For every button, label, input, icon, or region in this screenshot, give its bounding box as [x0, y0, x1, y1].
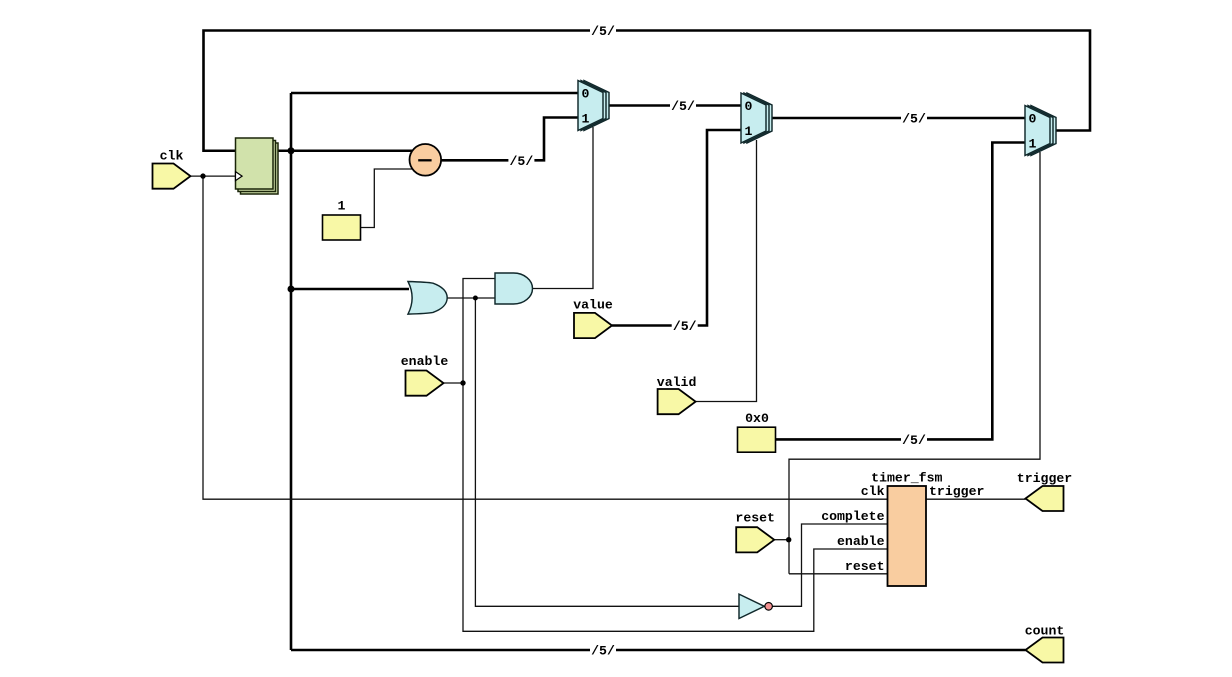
timer_fsm subcircuit box	[888, 486, 927, 586]
svg-text:trigger: trigger	[1017, 471, 1072, 486]
svg-text:1: 1	[582, 111, 590, 126]
svg-text:valid: valid	[657, 375, 697, 390]
wire: value port bus to mux2 input 1	[612, 130, 741, 326]
wire: mux1 output bus to mux2 input 0	[605, 104, 741, 107]
svg-text:/5/: /5/	[902, 112, 926, 127]
svg-text:count: count	[1025, 624, 1065, 639]
subtractor circle	[410, 144, 442, 176]
junction: Q bus node	[288, 147, 295, 154]
wire: enable net up to AND input 1	[463, 279, 495, 384]
svg-text:/5/: /5/	[510, 154, 534, 169]
wire: Q bus vertical trunk at x=291	[290, 93, 293, 650]
constant 1 box	[323, 215, 361, 240]
svg-text:1: 1	[338, 199, 346, 214]
bus width marker /5/ mux1 to mux2	[670, 99, 696, 114]
wire: reset net branch to timer_fsm reset pin	[789, 573, 888, 575]
wire: dff Q output bus row to subtractor	[273, 149, 414, 152]
mux U3 (stacked)	[1025, 106, 1056, 156]
bus width marker /5/ subtractor output	[508, 154, 534, 169]
wire: count output bus	[291, 649, 1026, 652]
svg-text:/5/: /5/	[673, 319, 697, 334]
NOT gate	[739, 594, 772, 618]
junction: OR output node	[473, 296, 478, 301]
svg-text:reset: reset	[735, 511, 775, 526]
svg-text:complete: complete	[821, 509, 884, 524]
wire: mux2 output bus to mux3 input 0	[768, 117, 1025, 120]
wire: AND output up to mux1 select	[532, 127, 593, 289]
mux U2 (stacked)	[741, 93, 772, 143]
wire: NOT output to timer_fsm complete pin	[773, 524, 888, 606]
wire: reduce-OR output to AND input 2	[448, 297, 496, 299]
reduce-OR gate	[408, 282, 447, 315]
wire: 0x0 constant bus to mux3 input 1	[776, 143, 1026, 440]
bus width marker /5/ mux2 to mux3	[901, 112, 927, 127]
svg-text:enable: enable	[401, 354, 449, 369]
wire: Q bus branch to mux1 input 0	[291, 92, 578, 95]
svg-text:clk: clk	[160, 149, 184, 164]
input port valid	[658, 389, 696, 414]
junction: enable node	[460, 380, 465, 385]
input port reset	[736, 527, 774, 552]
svg-text:0: 0	[582, 87, 590, 102]
wire: valid port to mux2 select	[696, 140, 757, 402]
svg-text:trigger: trigger	[929, 484, 984, 499]
mux U1 (stacked)	[578, 81, 609, 131]
svg-text:reset: reset	[845, 559, 885, 574]
wire: Q bus branch to reduce-OR input	[291, 288, 409, 291]
junction: clk node	[200, 173, 205, 178]
output port count	[1026, 638, 1064, 663]
bus width marker /5/ value wire	[672, 319, 698, 334]
wire: clk stub from port to dff clock pin	[191, 175, 237, 177]
svg-text:1: 1	[1029, 136, 1037, 151]
AND gate	[495, 273, 533, 304]
wire: clk net down to timer_fsm clk pin	[203, 176, 888, 499]
wire: enable stub from port	[444, 382, 464, 384]
wire: enable net down to timer_fsm enable pin	[463, 383, 888, 631]
svg-text:1: 1	[745, 124, 753, 139]
svg-text:/5/: /5/	[671, 99, 695, 114]
wire: reset net stub from port to trunk	[774, 539, 789, 541]
wire: feedback bus from mux3 output around top to dff D input	[204, 31, 1091, 151]
wire: reset net trunk to mux3 select	[789, 152, 1040, 574]
input port enable	[406, 371, 444, 396]
svg-text:0: 0	[1029, 112, 1037, 127]
wire: timer_fsm trigger output to trigger port	[926, 498, 1026, 500]
constant 0x0 box	[738, 427, 776, 452]
junction: Q bus to OR branch	[288, 286, 295, 293]
bus width marker /5/ count wire	[590, 644, 616, 659]
input port value	[574, 313, 612, 338]
svg-text:0: 0	[745, 99, 753, 114]
wire: reduce-OR output branch down to NOT input	[475, 298, 739, 606]
bus width marker /5/ top feedback	[590, 24, 616, 39]
input port clk	[153, 164, 191, 189]
svg-text:enable: enable	[837, 534, 885, 549]
output port trigger	[1026, 486, 1064, 511]
svg-text:/5/: /5/	[591, 644, 615, 659]
bus width marker /5/ 0x0 wire	[901, 433, 927, 448]
svg-text:/5/: /5/	[902, 433, 926, 448]
wire: constant 1 to subtractor input b	[361, 169, 414, 228]
dff register (stacked)	[236, 138, 279, 194]
svg-text:clk: clk	[861, 484, 885, 499]
svg-text:0x0: 0x0	[745, 411, 769, 426]
svg-text:value: value	[573, 298, 613, 313]
wire: subtractor output bus to mux1 input 1	[441, 118, 578, 161]
svg-text:/5/: /5/	[591, 24, 615, 39]
junction: reset node	[786, 537, 791, 542]
